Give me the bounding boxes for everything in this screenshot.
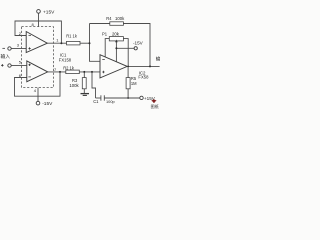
svg-text:R2 1k: R2 1k bbox=[63, 66, 75, 71]
svg-text:-15V: -15V bbox=[133, 41, 144, 46]
svg-text:20k: 20k bbox=[112, 31, 120, 36]
svg-text:输: 输 bbox=[156, 55, 160, 62]
svg-text:+15V: +15V bbox=[43, 10, 55, 16]
svg-text:100k: 100k bbox=[115, 16, 125, 21]
svg-text:C1: C1 bbox=[93, 99, 99, 104]
svg-text:FX58: FX58 bbox=[138, 74, 149, 79]
svg-text:R1 1k: R1 1k bbox=[66, 34, 78, 39]
svg-text:1M: 1M bbox=[131, 81, 137, 86]
svg-text:FX158: FX158 bbox=[59, 57, 72, 62]
svg-text:P1: P1 bbox=[102, 31, 108, 36]
svg-text:100k: 100k bbox=[69, 83, 79, 88]
svg-text:R4: R4 bbox=[106, 16, 112, 21]
svg-text:图纸: 图纸 bbox=[151, 103, 159, 109]
svg-text:-15V: -15V bbox=[42, 101, 53, 107]
svg-text:100p: 100p bbox=[106, 99, 115, 104]
svg-text:输入: 输入 bbox=[1, 53, 11, 60]
